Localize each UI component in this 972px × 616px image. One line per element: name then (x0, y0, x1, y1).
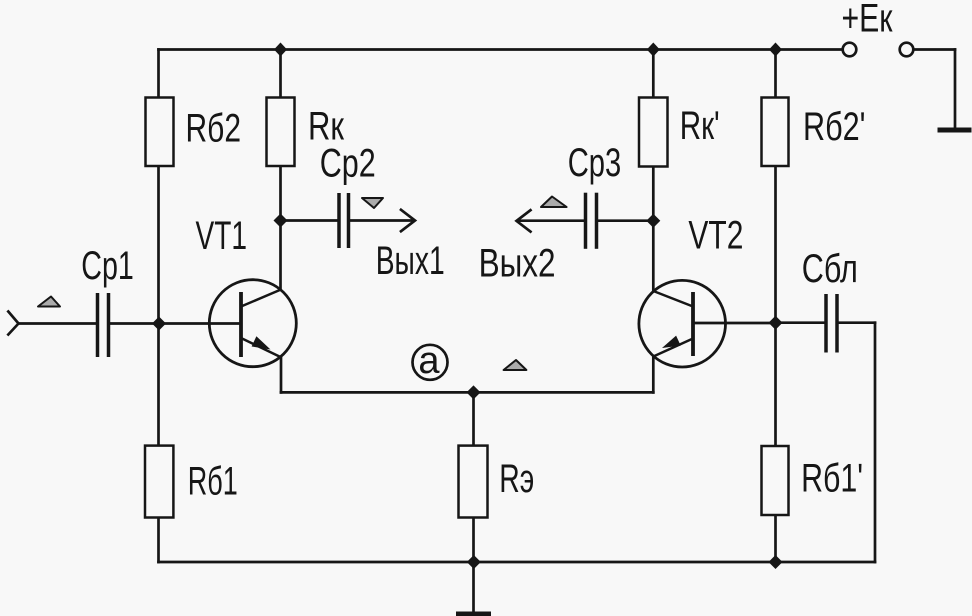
svg-text:Ср2: Ср2 (320, 142, 376, 186)
svg-text:Rб1: Rб1 (188, 460, 238, 504)
svg-text:Rб2': Rб2' (803, 105, 866, 149)
svg-text:Ср1: Ср1 (81, 244, 134, 288)
svg-text:а: а (418, 340, 440, 382)
svg-text:Вых2: Вых2 (479, 241, 556, 285)
svg-text:Ср3: Ср3 (568, 141, 622, 185)
svg-text:Rб1': Rб1' (801, 457, 863, 501)
svg-text:Сбл: Сбл (802, 247, 858, 291)
svg-text:+Ек: +Ек (842, 0, 893, 41)
svg-text:VT2: VT2 (688, 214, 743, 258)
svg-text:Rэ: Rэ (499, 457, 534, 501)
svg-text:Rб2: Rб2 (186, 107, 242, 151)
svg-text:Rк': Rк' (680, 104, 720, 148)
svg-text:Вых1: Вых1 (376, 239, 445, 283)
svg-text:VT1: VT1 (196, 214, 248, 258)
